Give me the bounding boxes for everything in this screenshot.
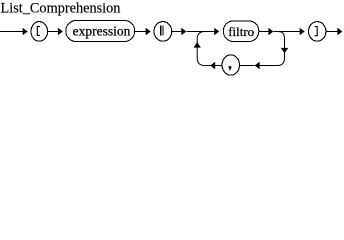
glyph [ <box>37 26 40 35</box>
arrowhead into [ <box>23 28 28 36</box>
arrowhead into || <box>146 28 151 36</box>
nonterminal stadium expression <box>66 21 135 42</box>
loop left riser wire <box>197 32 205 66</box>
svg-text:filtro: filtro <box>228 24 254 39</box>
wire <box>48 31 59 33</box>
loop right descender wire <box>278 32 285 66</box>
svg-text:List_Comprehension: List_Comprehension <box>1 0 121 16</box>
arrowhead after filtro <box>268 28 273 36</box>
wire to left corner <box>205 65 211 67</box>
glyph || bar 2 <box>163 25 164 35</box>
wire <box>215 65 221 67</box>
arrowhead left into , <box>255 62 260 70</box>
wire main rail through loop join <box>186 31 214 33</box>
wire <box>172 31 182 33</box>
terminal oval [ <box>31 22 48 42</box>
arrowhead up on riser <box>194 42 201 48</box>
wire out <box>326 31 337 33</box>
bottom rail right segment <box>260 65 278 67</box>
arrowhead into filtro <box>214 28 219 36</box>
arrowhead left after , <box>210 62 215 70</box>
wire <box>135 31 146 33</box>
terminal oval ] <box>309 22 326 42</box>
wire main rail to ] <box>273 31 300 33</box>
wire <box>240 65 255 67</box>
arrowhead down on descender <box>281 48 288 54</box>
arrowhead after || <box>181 28 186 36</box>
svg-text:expression: expression <box>73 23 131 38</box>
glyph || bar 1 <box>160 25 161 35</box>
arrowhead out <box>337 28 342 36</box>
arrowhead into expression <box>58 28 63 36</box>
wire after filtro <box>259 31 268 33</box>
glyph , <box>229 66 232 71</box>
terminal oval || <box>154 22 172 42</box>
glyph ] <box>315 27 318 36</box>
arrowhead into ] <box>300 28 305 36</box>
wire in <box>0 31 23 33</box>
nonterminal stadium filtro <box>223 21 258 42</box>
terminal oval , <box>222 55 239 75</box>
